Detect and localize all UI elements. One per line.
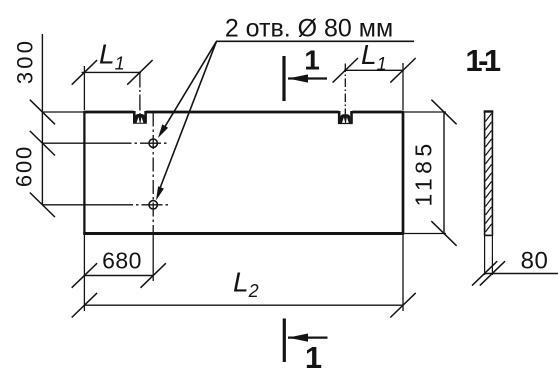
section 1-1 extension lines below [485, 235, 493, 275]
extension line panel top to left dim [42, 111, 84, 113]
L1 right loop center line [344, 64, 346, 117]
section 1-1 strip top cap [484, 110, 494, 112]
svg-text:1185: 1185 [411, 139, 437, 206]
L2 dimension line [84, 304, 403, 306]
L1 left tick 2 [127, 60, 152, 85]
1185 tick top [431, 100, 456, 125]
svg-text:L2: L2 [233, 267, 259, 302]
L1 left tick 1 [72, 60, 97, 85]
680 dimension line [84, 275, 153, 277]
680 tick left [72, 263, 97, 288]
lifting loop 1 [135, 114, 145, 123]
leader line to hole 2 [159, 41, 217, 192]
notch 1 [133, 111, 147, 123]
svg-text:300: 300 [13, 38, 38, 84]
L1 right tick 2 [390, 58, 415, 83]
section 1-1 hatching [485, 113, 491, 232]
L1 left dimension line [82, 71, 142, 73]
section mark bottom: arrow shaft [288, 336, 328, 338]
tick at y=204.8 [30, 193, 55, 218]
panel bottom edge [83, 232, 404, 235]
L1 left loop center line [139, 72, 141, 116]
extension of hole center line below panel [152, 234, 154, 282]
section mark top: arrow shaft [288, 77, 327, 79]
hole 2 [149, 201, 157, 209]
section mark top: arrowhead [288, 74, 308, 82]
horizontal center line hole 2 [42, 204, 112, 206]
hole 1 [149, 139, 157, 147]
680 tick right [141, 263, 166, 288]
leader arrowhead 2 [156, 186, 164, 200]
section 1-1 strip left edge [484, 112, 486, 236]
notch 2 [338, 111, 353, 123]
80 tick right [480, 261, 505, 285]
leader line to hole 1 [161, 41, 217, 134]
1185 dimension line [443, 112, 445, 234]
680 left extension (panel edge down) [83, 234, 85, 312]
svg-text:600: 600 [12, 145, 37, 187]
L1 right tick 1 [333, 58, 358, 83]
leader shelf for hole note [216, 40, 414, 42]
svg-text:680: 680 [102, 248, 142, 274]
left dimension line (300/600) [41, 34, 43, 205]
svg-text:L1: L1 [99, 39, 125, 74]
svg-text:1-1: 1-1 [465, 43, 501, 78]
tick at y=112 [30, 100, 55, 125]
svg-text:80: 80 [521, 248, 549, 275]
L1 right extension (panel edge up) [402, 63, 404, 110]
svg-text:L1: L1 [361, 39, 387, 74]
svg-text:1: 1 [305, 340, 322, 374]
section 1-1 strip bottom cap [484, 234, 493, 236]
L1 left extension (panel edge up) [83, 66, 85, 110]
lifting loop 2 [340, 114, 350, 123]
80 tick left [472, 261, 497, 285]
L2 right extension (panel edge down) [402, 234, 404, 312]
L2 tick right [390, 293, 415, 318]
80 dimension line [484, 273, 558, 275]
1185 top extension [405, 111, 447, 113]
leader arrowhead 1 [158, 124, 168, 138]
vertical center line through holes [152, 113, 154, 234]
L2 tick left [72, 293, 97, 318]
section mark top: thick line [282, 56, 285, 101]
section 1-1 strip right edge [491, 112, 493, 236]
panel top edge [84, 111, 403, 114]
1185 bottom extension [405, 233, 447, 235]
horizontal center line hole 1 [42, 142, 110, 144]
section mark bottom: arrowhead [288, 334, 308, 342]
panel left edge [83, 111, 85, 234]
tick at y=143.2 [30, 131, 55, 156]
1185 tick bottom [431, 221, 456, 246]
L1 right dimension line [344, 69, 404, 71]
panel right edge [402, 111, 405, 234]
svg-text:1: 1 [304, 44, 320, 75]
section mark bottom: thick line [283, 319, 286, 363]
